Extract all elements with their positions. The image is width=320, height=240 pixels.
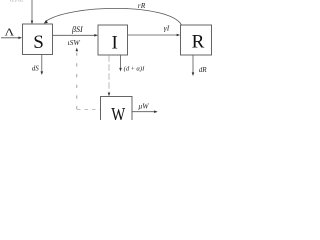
wire: arrow into S from top (31, 0, 33, 23)
label Lambda (5, 26, 15, 38)
svg-text:dS/dt: dS/dt (10, 0, 23, 4)
wire: beta S I arrow from S to I (53, 34, 97, 36)
wire: gamma I arrow from I to R (128, 34, 179, 36)
wire: dR arrow down from R (192, 55, 194, 74)
svg-text:dR: dR (199, 66, 208, 74)
wire: mu W arrow out of W (132, 111, 156, 113)
svg-text:dS: dS (32, 65, 40, 73)
wire: dashed horizontal from W left edge (77, 108, 100, 110)
svg-text:rR: rR (138, 1, 146, 10)
wire: rR curved arrow from R to S (45, 8, 181, 24)
wire: (d+alpha)I arrow down from I (120, 55, 122, 70)
wire: Lambda arrow into S (1, 37, 21, 39)
svg-text:W: W (111, 104, 126, 120)
clipped tiny text top-left (10, 0, 23, 4)
wire: dashed arrow from W up to transmission term (76, 50, 78, 109)
svg-text:βSI: βSI (71, 25, 83, 34)
compartment box S (23, 24, 53, 55)
wire: shedding line from I down into W (dashed grey) (108, 55, 110, 93)
svg-text:ιSW: ιSW (68, 38, 81, 47)
svg-text:S: S (33, 32, 44, 53)
svg-text:R: R (192, 32, 205, 53)
svg-text:μW: μW (139, 102, 150, 111)
compartment box I (98, 25, 128, 55)
svg-text:(d + α)I: (d + α)I (124, 65, 145, 72)
svg-text:γI: γI (164, 24, 170, 33)
compartment box R (181, 25, 212, 55)
wire: dS arrow down from S (41, 55, 43, 74)
svg-text:Λ: Λ (5, 26, 15, 38)
svg-text:I: I (112, 32, 118, 53)
compartment box W (101, 97, 133, 126)
